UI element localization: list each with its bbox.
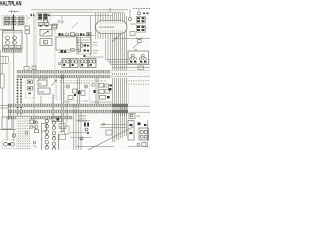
motor/relay boxes row (double circles) <box>62 59 96 68</box>
busbar pair (hatched) <box>17 70 110 73</box>
relay block K2 (dashed, dark contacts) <box>38 13 58 46</box>
fuse boxes F1 F2 <box>39 23 50 26</box>
gearbox unit with bearing circles <box>128 50 149 70</box>
wire: middle frame top <box>37 11 124 13</box>
dotted wires right <box>126 81 150 84</box>
relay/fuse cluster top right <box>130 9 149 32</box>
svg-text:xxx xxxx: xxx xxxx <box>78 121 88 123</box>
main busbars (hatched bands) <box>8 104 112 107</box>
lamp with wire right of harness <box>129 18 132 21</box>
terminal boxes above busbar <box>24 67 29 71</box>
halftone area (dotted) <box>17 117 31 150</box>
wiring bus tail (bottom right) <box>113 107 127 142</box>
dashed enclosure: motors M1 M2 and contacts <box>61 74 89 132</box>
wire: inner frame top <box>48 14 113 16</box>
wires bottom center (vertical) <box>67 100 81 150</box>
svg-text:xxxxxxx: xxxxxxx <box>78 116 87 118</box>
svg-text:xxx xxx xx: xxx xxx xx <box>96 81 107 83</box>
svg-text:xxxx: xxxx <box>39 91 45 94</box>
connector block X1 with socket circles <box>0 30 22 52</box>
lamp chains (stacked circles) <box>42 119 59 150</box>
svg-text:xx xxx: xx xxx <box>64 102 71 104</box>
components under busbars: lamps and fuses <box>30 96 47 133</box>
labeled device boxes mid-left <box>38 77 60 118</box>
connector pin ladder <box>17 78 22 116</box>
component symbol under title <box>8 10 19 14</box>
wires with lamp symbol <box>50 16 78 29</box>
wire: outer frame top <box>31 9 128 11</box>
wires: nested frame bottoms <box>86 40 150 67</box>
svg-text:A: A <box>44 41 46 45</box>
terminal box <box>53 24 58 28</box>
svg-text:xxx xxxxx: xxx xxxxx <box>38 78 49 80</box>
dashed wire top right <box>133 7 150 9</box>
terminal boxes right of X1 <box>25 26 30 34</box>
connector stack and left wires <box>0 30 27 129</box>
wire with terminal box right <box>113 38 150 40</box>
relay block K1 (dashed enclosure with contact modules) <box>2 15 31 31</box>
dashed wire (vertical) <box>54 30 56 100</box>
control unit box A <box>40 39 52 46</box>
lamp symbols bottom middle <box>85 128 88 131</box>
junction box above chains <box>52 117 62 122</box>
svg-text:xxxx xx: xxxx xx <box>78 118 86 120</box>
device outline box (empty) <box>56 37 77 50</box>
text labels right of ignition unit <box>93 42 99 54</box>
dashed wire pair <box>60 79 96 81</box>
wire branch symbol above gear box <box>133 38 143 49</box>
capacitor pair symbols <box>84 123 89 127</box>
component cluster: relays and contacts <box>78 78 99 104</box>
device box bottom left <box>2 117 12 129</box>
pump unit cluster bottom right <box>130 114 133 117</box>
diagonal wire bottom right <box>88 127 134 151</box>
dashed group: lamps and contact <box>2 140 17 149</box>
potentiometer box (arrow symbol) <box>40 30 52 37</box>
svg-text:HALTPLAN: HALTPLAN <box>0 0 22 7</box>
ignition unit cluster <box>76 15 91 57</box>
wire (long vertical pair) <box>33 12 35 129</box>
labeled boxes right of chains <box>59 124 66 129</box>
junction terminals <box>31 14 35 16</box>
wiring bus (vertical lines) <box>96 13 111 65</box>
contacts above motor row <box>61 50 67 53</box>
component row: switches and lamps on wire <box>58 33 94 36</box>
dashed module with contacts <box>26 78 35 99</box>
cable harness label (stadium outline) <box>96 21 128 34</box>
svg-text:xxxxxxxxxx: xxxxxxxxxx <box>99 25 115 29</box>
